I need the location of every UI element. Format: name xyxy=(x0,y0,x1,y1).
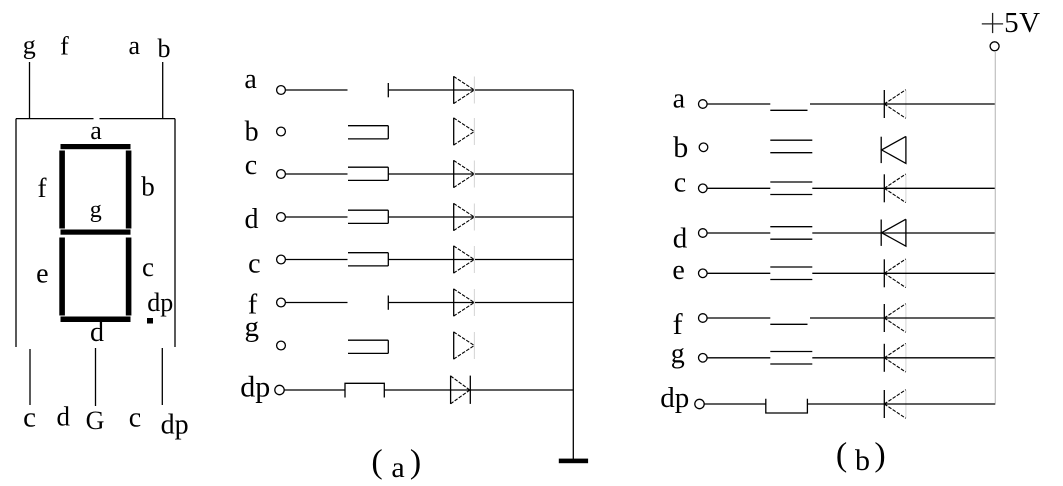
svg-text:f: f xyxy=(673,308,683,341)
svg-text:b: b xyxy=(158,34,171,63)
svg-text:G: G xyxy=(86,406,105,435)
svg-text:(: ( xyxy=(836,437,847,474)
svg-text:d: d xyxy=(245,204,259,235)
svg-text:b: b xyxy=(245,116,259,147)
svg-text:f: f xyxy=(60,31,69,60)
svg-text:c: c xyxy=(129,403,141,434)
svg-text:): ) xyxy=(410,444,421,481)
svg-text:a: a xyxy=(244,64,257,95)
svg-text:5V: 5V xyxy=(1004,7,1040,39)
svg-text:b: b xyxy=(141,171,155,201)
svg-text:c: c xyxy=(23,402,36,434)
svg-text:e: e xyxy=(36,259,48,290)
svg-text:dp: dp xyxy=(161,409,189,440)
svg-text:c: c xyxy=(674,168,686,199)
svg-text:b: b xyxy=(673,131,688,164)
svg-text:a: a xyxy=(673,84,686,115)
svg-text:(: ( xyxy=(371,444,382,481)
svg-text:dp: dp xyxy=(660,382,689,414)
svg-text:e: e xyxy=(672,255,684,286)
svg-text:g: g xyxy=(671,339,685,370)
svg-text:c: c xyxy=(248,249,260,280)
svg-text:d: d xyxy=(90,317,104,348)
svg-text:d: d xyxy=(673,223,688,255)
svg-text:a: a xyxy=(90,116,102,145)
svg-text:g: g xyxy=(90,197,102,223)
svg-text:d: d xyxy=(57,402,71,432)
svg-text:c: c xyxy=(245,150,257,181)
svg-text:): ) xyxy=(874,437,885,474)
svg-text:a: a xyxy=(129,31,141,60)
svg-text:f: f xyxy=(38,173,47,203)
svg-text:dp: dp xyxy=(240,370,270,403)
svg-text:b: b xyxy=(855,444,870,477)
svg-text:dp: dp xyxy=(147,288,173,317)
svg-text:g: g xyxy=(244,311,259,343)
svg-text:a: a xyxy=(391,451,404,484)
svg-text:c: c xyxy=(142,252,154,282)
svg-text:g: g xyxy=(23,30,36,59)
